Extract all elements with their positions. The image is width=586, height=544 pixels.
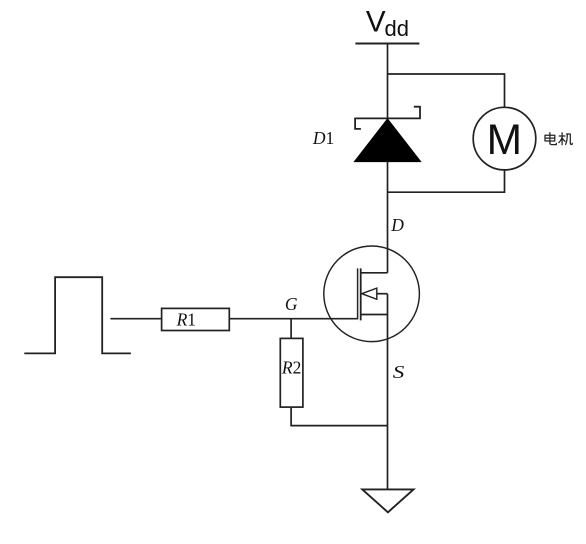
ground symbol bbox=[362, 489, 413, 512]
transistor Q1 gate line bbox=[357, 268, 359, 319]
label 电机 (motor text) char 电 bbox=[545, 133, 556, 145]
svg-text:dd: dd bbox=[385, 16, 409, 41]
svg-text:D: D bbox=[390, 215, 404, 235]
resistor R1 box bbox=[162, 308, 230, 330]
wire diode anode to MOSFET drain bbox=[387, 162, 389, 273]
wire R1 to gate, node G bbox=[229, 318, 357, 320]
svg-text:S: S bbox=[393, 363, 405, 382]
diode D1 anode triangle bbox=[354, 119, 420, 162]
wire motor bottom to drain net bbox=[388, 170, 505, 192]
wire gate node to R2 top bbox=[290, 319, 292, 339]
wire pulse source to R1 bbox=[110, 318, 161, 320]
svg-text:R2: R2 bbox=[281, 357, 301, 377]
resistor R2 box bbox=[280, 338, 303, 407]
label 电机 (motor text) char 机 bbox=[559, 133, 573, 145]
transistor Q1 source tap bbox=[361, 314, 388, 316]
power net Vdd bar bbox=[355, 42, 419, 44]
node top junction / wire to motor top bbox=[388, 74, 505, 107]
wire source down to ground bbox=[387, 294, 389, 490]
svg-text:M: M bbox=[487, 117, 522, 164]
transistor Q1 drain tap bbox=[361, 272, 388, 274]
svg-text:V: V bbox=[366, 6, 386, 39]
transistor Q1 body tap wire bbox=[377, 293, 388, 295]
transistor Q1 body arrow bbox=[362, 288, 377, 299]
svg-text:G: G bbox=[285, 294, 298, 314]
diode D1 schottky cathode bar bbox=[355, 106, 420, 130]
transistor Q1 channel line bbox=[360, 268, 362, 320]
transistor Q1 body circle bbox=[324, 246, 420, 342]
wire Vdd bar to diode cathode bbox=[387, 44, 389, 119]
motor circle M1 bbox=[473, 107, 536, 170]
pulse waveform symbol bbox=[24, 277, 131, 353]
svg-text:D1: D1 bbox=[312, 128, 334, 148]
wire R2 bottom to source net bbox=[291, 407, 387, 426]
svg-text:R1: R1 bbox=[176, 310, 196, 330]
